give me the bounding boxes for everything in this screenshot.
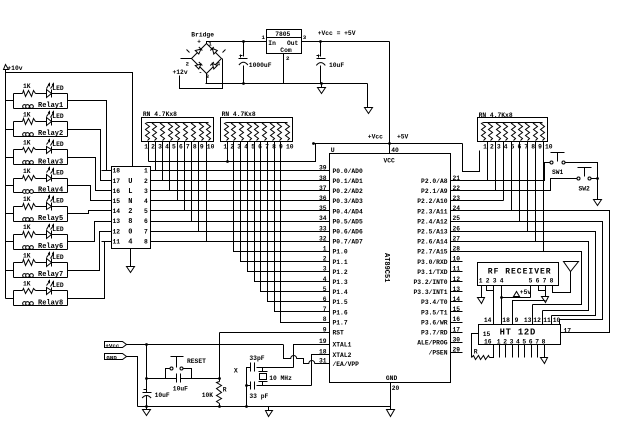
wire P2.0 row to SW1: [451, 163, 551, 181]
relay Relay5 frame: [14, 207, 68, 222]
pin 1 HT12D addr label: [497, 338, 501, 345]
capacitor C2 10uF: [316, 55, 344, 70]
svg-text:Relay6: Relay6: [38, 243, 63, 251]
svg-text:7: 7: [323, 306, 327, 313]
wire HT12D address A8 stub: [544, 345, 546, 358]
wire relay3 to ULN pin 16: [68, 158, 102, 191]
svg-text:P1.0: P1.0: [333, 249, 348, 256]
label ULN2804 char L: [128, 188, 132, 196]
svg-text:3: 3: [144, 188, 148, 195]
ground PSU center: [318, 88, 326, 94]
svg-text:P3.2/INT0: P3.2/INT0: [413, 279, 447, 286]
resistor network RN3 4.7Kx8 body: [478, 112, 548, 142]
pin 5 RF: [529, 277, 533, 284]
label RN1 pin 10: [207, 144, 215, 151]
pin 34 MCU P0.5/AD5: [319, 215, 363, 225]
wire RN2 pin7 to P1.5: [268, 142, 330, 302]
wire P0.3 row: [151, 200, 330, 202]
wire P2.6 row to HT12D D12: [451, 242, 589, 311]
pin 11 MCU P3.1/TXD: [417, 266, 460, 276]
wire P3.4/T0 stub: [451, 301, 463, 303]
label RN2 pin 8: [272, 144, 276, 151]
pin 18 ULN left: [102, 168, 121, 175]
svg-text:14: 14: [484, 317, 492, 324]
svg-text:4: 4: [323, 276, 327, 283]
capacitor C1 1000uF: [239, 55, 272, 70]
pin 2 HT12D addr label: [503, 338, 507, 345]
junction +Vcc rail left: [312, 142, 315, 145]
svg-text:11: 11: [113, 238, 121, 245]
svg-text:17: 17: [113, 178, 121, 185]
LED D7: [47, 253, 64, 267]
LED D8: [47, 281, 64, 295]
label RN3 pin 1: [483, 143, 487, 150]
LED D3: [47, 140, 64, 154]
svg-text:33: 33: [319, 225, 327, 232]
wire RF pin8 to antenna: [553, 272, 571, 293]
svg-text:P3.4/T0: P3.4/T0: [421, 299, 448, 306]
pin 17 ULN left: [102, 178, 121, 185]
wire /PSEN stub: [451, 352, 463, 354]
svg-text:Relay3: Relay3: [38, 158, 63, 166]
svg-text:40: 40: [391, 147, 399, 154]
svg-text:16: 16: [113, 188, 121, 195]
svg-text:10uF: 10uF: [173, 386, 188, 393]
wire P0.7 row: [151, 241, 330, 243]
pin 13 ULN left: [102, 218, 121, 225]
svg-text:XTAL1: XTAL1: [333, 341, 352, 348]
svg-text:3: 3: [510, 338, 514, 345]
antenna ANT1: [564, 262, 579, 272]
ground HT12D A8: [541, 358, 548, 364]
svg-text:1K: 1K: [23, 196, 31, 203]
svg-text:18: 18: [502, 317, 510, 324]
node GND flag: [105, 354, 127, 362]
svg-text:L: L: [128, 188, 132, 196]
svg-text:+5v: +5v: [520, 289, 532, 296]
label RN1 pin 8: [193, 144, 197, 151]
wire RN2 pin5 to P1.3: [255, 142, 330, 282]
svg-text:RN 4.7Kx8: RN 4.7Kx8: [143, 111, 177, 118]
wire C1 top lead: [243, 42, 245, 57]
pin 12 HT12D: [533, 317, 541, 324]
pin 24 MCU P2.3/A11: [417, 205, 460, 215]
LED D2: [47, 112, 64, 126]
svg-text:/EA/VPP: /EA/VPP: [333, 361, 360, 368]
wire RN2 pin2 to P1.0: [234, 142, 330, 252]
pin 3 ULN right: [144, 188, 148, 195]
svg-text:LED: LED: [52, 141, 64, 148]
svg-text:N: N: [128, 198, 132, 206]
resistor 1K row5: [23, 196, 36, 210]
wire P3.2/INT0 stub: [451, 281, 463, 283]
wire HT12D address A1 stub: [499, 345, 501, 358]
wire P2.4 row to HT12D D10: [451, 222, 603, 320]
wire P2.7 row to HT12D D13: [451, 252, 582, 305]
resistor 1K row2: [23, 111, 36, 124]
junction SW ground: [596, 177, 599, 180]
svg-text:1: 1: [223, 144, 227, 151]
label RN3 pin 4: [504, 143, 508, 150]
pin 3 MCU P1.2: [323, 266, 348, 276]
svg-text:34: 34: [319, 215, 327, 222]
svg-text:Com: Com: [280, 47, 292, 54]
wire relay6 to ULN pin 13: [68, 222, 102, 242]
label RN1 pin 9: [200, 144, 204, 151]
svg-text:P3.1/TXD: P3.1/TXD: [417, 269, 447, 276]
label RN2 pin 4: [244, 144, 248, 151]
svg-text:P1.7: P1.7: [333, 319, 348, 326]
pin 13 MCU P3.3/INT1: [413, 286, 460, 296]
svg-text:4: 4: [128, 238, 132, 246]
svg-text:12: 12: [533, 317, 541, 324]
svg-text:2: 2: [286, 55, 290, 62]
wire RN3 pin9 to P2.7: [543, 142, 545, 252]
svg-text:1: 1: [483, 143, 487, 150]
svg-text:5: 5: [144, 208, 148, 215]
svg-text:10: 10: [286, 144, 294, 151]
pin 38 MCU P0.1/AD1: [319, 175, 363, 185]
junction R1 ground: [218, 405, 221, 408]
capacitor C5 33pF: [249, 355, 264, 371]
svg-text:P0.0/AD0: P0.0/AD0: [333, 168, 363, 175]
wire RN2 pin8 to P1.6: [275, 142, 330, 312]
wire P0.5 row: [151, 221, 330, 223]
wire C3 bottom lead: [146, 396, 148, 407]
wire RN pull-up common to +Vcc: [149, 144, 316, 162]
pin 23 MCU P2.2/A10: [417, 195, 460, 205]
pin 12 ULN left: [102, 228, 121, 235]
wire relay5 to ULN pin 14: [68, 211, 102, 214]
svg-text:38: 38: [319, 175, 327, 182]
switch SW2: [577, 168, 592, 193]
label RN3 pin 3: [497, 143, 501, 150]
svg-text:P3.5/T1: P3.5/T1: [421, 309, 448, 316]
label bridge terminals: [186, 39, 221, 80]
svg-text:1: 1: [144, 144, 148, 151]
wire +10V stub to relay8: [6, 298, 14, 300]
label RN2 pin 5: [251, 144, 255, 151]
wire AC input stub: [181, 58, 192, 60]
label +Vcc = +5V: [318, 30, 356, 37]
wire bridge DC+ to regulator: [207, 42, 267, 44]
IC U4 RF RECEIVER body: [478, 263, 559, 286]
wire P2.3 row to HT12D VT: [451, 211, 610, 333]
svg-text:1000uF: 1000uF: [249, 62, 272, 69]
pin 15 ULN left: [102, 198, 121, 205]
wire cap common left: [247, 368, 251, 407]
svg-text:6: 6: [144, 218, 148, 225]
resistor 1K row6: [23, 224, 36, 237]
pin 29 MCU /PSEN: [429, 347, 461, 357]
svg-text:20: 20: [392, 385, 400, 392]
wire RN3 pin3 to P2.1: [495, 142, 497, 191]
relay coil Relay1: [23, 102, 64, 110]
label RN1 pin 5: [172, 144, 176, 151]
wire HT12D address A2 stub: [505, 345, 507, 358]
relay coil Relay7: [23, 271, 64, 279]
wire RF pin3 to HT12D DIN: [493, 286, 495, 325]
svg-text:8: 8: [128, 218, 132, 226]
svg-text:16: 16: [484, 338, 492, 345]
pin 18 MCU XTAL2: [319, 349, 352, 359]
svg-text:15: 15: [483, 331, 491, 338]
pin 20 GND: [392, 385, 400, 392]
junction reset node left: [145, 377, 148, 380]
svg-text:Relay2: Relay2: [38, 130, 63, 138]
capacitor C4 10uF: [173, 374, 188, 393]
svg-text:36: 36: [319, 195, 327, 202]
ground RF pin1: [478, 298, 485, 304]
wire relay8 to ULN pin 11: [68, 242, 105, 299]
label RN2 pin 7: [265, 144, 269, 151]
svg-text:U: U: [331, 147, 335, 154]
label HT 12D: [500, 328, 536, 338]
wire gnd rail end down: [367, 84, 369, 108]
wire cap common to crystal bottom: [247, 385, 251, 387]
pin 2 ULN right: [144, 178, 148, 185]
wire SW1 to ground column: [565, 163, 598, 200]
svg-text:6: 6: [179, 144, 183, 151]
junction +5v line: [500, 296, 503, 299]
wire HT12D pin16 lead: [490, 345, 494, 358]
svg-text:P3.6/WR: P3.6/WR: [421, 319, 448, 326]
pin 7 MCU P1.6: [323, 306, 348, 316]
svg-text:1K: 1K: [23, 224, 31, 231]
wire ALE/PROG stub: [451, 342, 463, 344]
IC U2 ULN2804 body: [112, 167, 151, 249]
switch SW1: [550, 153, 565, 177]
resistor 1K row8: [23, 281, 36, 294]
diode bridge D1: [195, 47, 202, 54]
svg-text:P3.7/RD: P3.7/RD: [421, 330, 448, 337]
junction +5V at C2: [319, 40, 322, 43]
wire RESET left leg: [166, 369, 170, 379]
wire +10V stub to relay7: [6, 270, 14, 272]
pin 40 VCC: [384, 147, 399, 165]
svg-text:U: U: [128, 178, 132, 186]
svg-text:RST: RST: [333, 330, 345, 337]
svg-text:P2.1/A9: P2.1/A9: [421, 188, 448, 195]
wire HT12D pin18 VDD: [501, 298, 503, 325]
IC U1 AT89C51 body: [330, 154, 451, 383]
svg-text:VCC: VCC: [384, 157, 396, 164]
junction +5V at pin40: [388, 142, 391, 145]
wire HT12D pin12 lead: [542, 311, 544, 325]
svg-text:1K: 1K: [23, 83, 31, 90]
svg-text:3: 3: [158, 144, 162, 151]
pin 9 MCU RST: [323, 326, 344, 336]
svg-text:8: 8: [323, 316, 327, 323]
wire HT12D address A3 stub: [512, 345, 514, 358]
pin 7 RF: [543, 277, 547, 284]
svg-text:39: 39: [319, 165, 327, 172]
svg-text:P2.2/A10: P2.2/A10: [417, 198, 447, 205]
label ULN2804 char 2: [128, 208, 132, 216]
label RN3 pin 7: [524, 143, 528, 150]
wire gnd arrow stub mid: [268, 407, 270, 411]
svg-text:8: 8: [193, 144, 197, 151]
pin 1 ULN right: [144, 168, 148, 175]
pin 16 ULN left: [102, 188, 121, 195]
junction C3 ground: [145, 405, 148, 408]
wire RN1 pin2 to P0.0: [155, 142, 157, 171]
wire +10V stub to relay4: [6, 185, 14, 187]
pin 35 MCU P0.4/AD4: [319, 205, 363, 215]
svg-text:10 MHz: 10 MHz: [269, 375, 292, 382]
wire HT12D pin10 lead: [559, 320, 561, 325]
pin 10 MCU P3.0/RXD: [417, 256, 460, 266]
svg-text:+Vcc: +Vcc: [368, 134, 383, 141]
wire XTAL1 row: [294, 345, 330, 368]
pin 28 MCU P2.7/A15: [417, 246, 460, 256]
wire +10V stub to relay2: [6, 129, 14, 131]
svg-text:1K: 1K: [23, 111, 31, 118]
wire RN3 pin4 to P2.2: [503, 142, 505, 201]
label RN1 pin 4: [165, 144, 169, 151]
pin 1 MCU P1.0: [323, 246, 348, 256]
svg-text:4: 4: [144, 198, 148, 205]
svg-text:0: 0: [128, 228, 132, 236]
svg-text:+Vcc: +Vcc: [105, 342, 119, 349]
node +Vcc flag: [105, 342, 127, 350]
wire +Vcc flag line: [127, 344, 284, 346]
svg-text:2: 2: [144, 178, 148, 185]
wire gnd arrow stub right: [390, 407, 392, 410]
wire +5V down to MCU VCC: [389, 42, 391, 154]
pin 11 ULN left: [102, 238, 121, 245]
wire crystal bottom node: [257, 385, 312, 387]
svg-text:+10v: +10v: [7, 65, 22, 72]
wire GND flag line: [127, 357, 138, 407]
LED D6: [47, 225, 64, 239]
junction RN2 common: [226, 160, 229, 163]
svg-text:LED: LED: [52, 113, 64, 120]
svg-text:32: 32: [319, 235, 327, 242]
wire +Vcc to EA hop path: [284, 345, 330, 364]
wire RN2 pin6 to P1.4: [261, 142, 330, 292]
wire C2 bottom lead: [320, 66, 322, 84]
wire C3 top lead: [146, 345, 148, 393]
svg-text:13: 13: [113, 218, 121, 225]
pin 10 HT12D: [553, 317, 561, 324]
svg-text:2: 2: [486, 277, 490, 284]
wire HT12D address A7 stub: [537, 345, 539, 358]
wire P3.7/RD stub: [451, 332, 463, 334]
wire RF pin5 lead: [530, 286, 532, 298]
pin 39 MCU P0.0/AD0: [319, 165, 363, 175]
label RN3 pin 10: [545, 143, 553, 150]
wire HT12D address A4 stub: [518, 345, 520, 358]
svg-text:7: 7: [543, 277, 547, 284]
relay Relay3 frame: [14, 150, 68, 165]
label ULN2804 char 4: [128, 238, 132, 246]
junction caps common ground: [245, 405, 248, 408]
wire RN1 pin3 to P0.1: [162, 142, 164, 181]
svg-text:P3.3/INT1: P3.3/INT1: [413, 289, 447, 296]
svg-text:AT89C51: AT89C51: [382, 253, 390, 282]
wire gnd arrow stub left: [146, 407, 148, 410]
wire RN3 pin7 to P2.5: [527, 142, 529, 232]
svg-text:Relay5: Relay5: [38, 215, 63, 223]
junction caps common bottom node: [245, 384, 248, 387]
wire P2.5 row to HT12D D11: [451, 232, 596, 316]
wire +10V top feed to ULN COM: [6, 73, 133, 167]
wire gnd stub: [321, 84, 323, 88]
label ULN2804 char 0: [128, 228, 132, 236]
svg-text:8: 8: [550, 277, 554, 284]
resistor 1K row7: [23, 252, 36, 265]
pin 30 MCU ALE/PROG: [417, 336, 460, 346]
capacitor C6 33pF: [249, 382, 268, 401]
diode bridge D3: [195, 62, 202, 69]
label RN2 pin 10: [286, 144, 294, 151]
pin 27 MCU P2.6/A14: [417, 235, 460, 245]
svg-text:2: 2: [128, 208, 132, 216]
label RN1 pin 6: [179, 144, 183, 151]
svg-text:5: 5: [529, 277, 533, 284]
wire RN1 pin1 common: [148, 142, 150, 162]
pin 5 MCU P1.4: [323, 286, 348, 296]
wire P3.6/WR stub: [451, 322, 463, 324]
pin 1 RF: [479, 277, 483, 284]
svg-text:+12v: +12v: [173, 69, 188, 76]
svg-text:-: -: [199, 69, 203, 76]
wire MCU GND lead: [390, 383, 392, 407]
wire AC return loop: [180, 59, 223, 89]
wire RN3 pin2 to P2.0: [487, 142, 489, 181]
wire bottom ground rail: [138, 406, 391, 408]
pin 6 HT12D addr label: [529, 338, 533, 345]
wire P2.1 row to SW2: [451, 179, 578, 191]
wire RN1 pin9 to P0.7: [206, 142, 208, 242]
label +5V rail: [397, 134, 409, 141]
pin 17 HT12D VT: [564, 327, 572, 334]
pin 8 HT12D addr label: [542, 338, 546, 345]
svg-text:XTAL2: XTAL2: [333, 352, 352, 359]
wire RF pin7 to ground: [545, 286, 547, 297]
svg-text:7805: 7805: [275, 31, 290, 38]
svg-text:8: 8: [144, 238, 148, 245]
label RN2 pin 2: [230, 144, 234, 151]
junction gnd rail C1: [242, 82, 245, 85]
relay Relay7 frame: [14, 263, 68, 278]
svg-text:X: X: [234, 367, 238, 374]
svg-text:3: 3: [303, 34, 307, 41]
wire HT12D pin13 lead: [532, 305, 534, 325]
wire crystal top node: [257, 367, 294, 369]
relay Relay8 frame: [14, 291, 68, 306]
svg-text:10uF: 10uF: [329, 62, 344, 69]
svg-text:17: 17: [564, 327, 572, 334]
svg-text:12: 12: [113, 228, 121, 235]
label GND MCU: [386, 375, 398, 382]
label ULN2804 char N: [128, 198, 132, 206]
svg-text:14: 14: [113, 208, 121, 215]
svg-text:4: 4: [504, 143, 508, 150]
svg-text:P1.6: P1.6: [333, 309, 348, 316]
pin 7 ULN right: [144, 228, 148, 235]
wire P3.1/TXD stub: [451, 271, 463, 273]
wire ULN GND lead: [130, 249, 132, 267]
svg-text:1K: 1K: [23, 252, 31, 259]
svg-text:P1.5: P1.5: [333, 299, 348, 306]
wire +10V stub to relay1: [6, 100, 14, 102]
svg-text:Relay7: Relay7: [38, 271, 63, 279]
svg-text:5: 5: [323, 286, 327, 293]
wire RN1 pin4 to P0.2: [169, 142, 171, 191]
pin 3 RF: [493, 277, 497, 284]
